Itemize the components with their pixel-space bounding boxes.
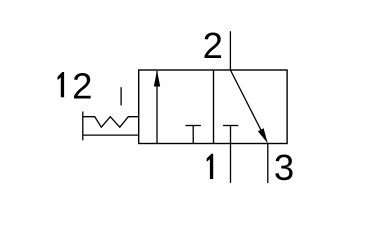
svg-text:2: 2 xyxy=(72,65,92,106)
svg-text:3: 3 xyxy=(274,147,294,188)
svg-text:2: 2 xyxy=(203,25,223,66)
